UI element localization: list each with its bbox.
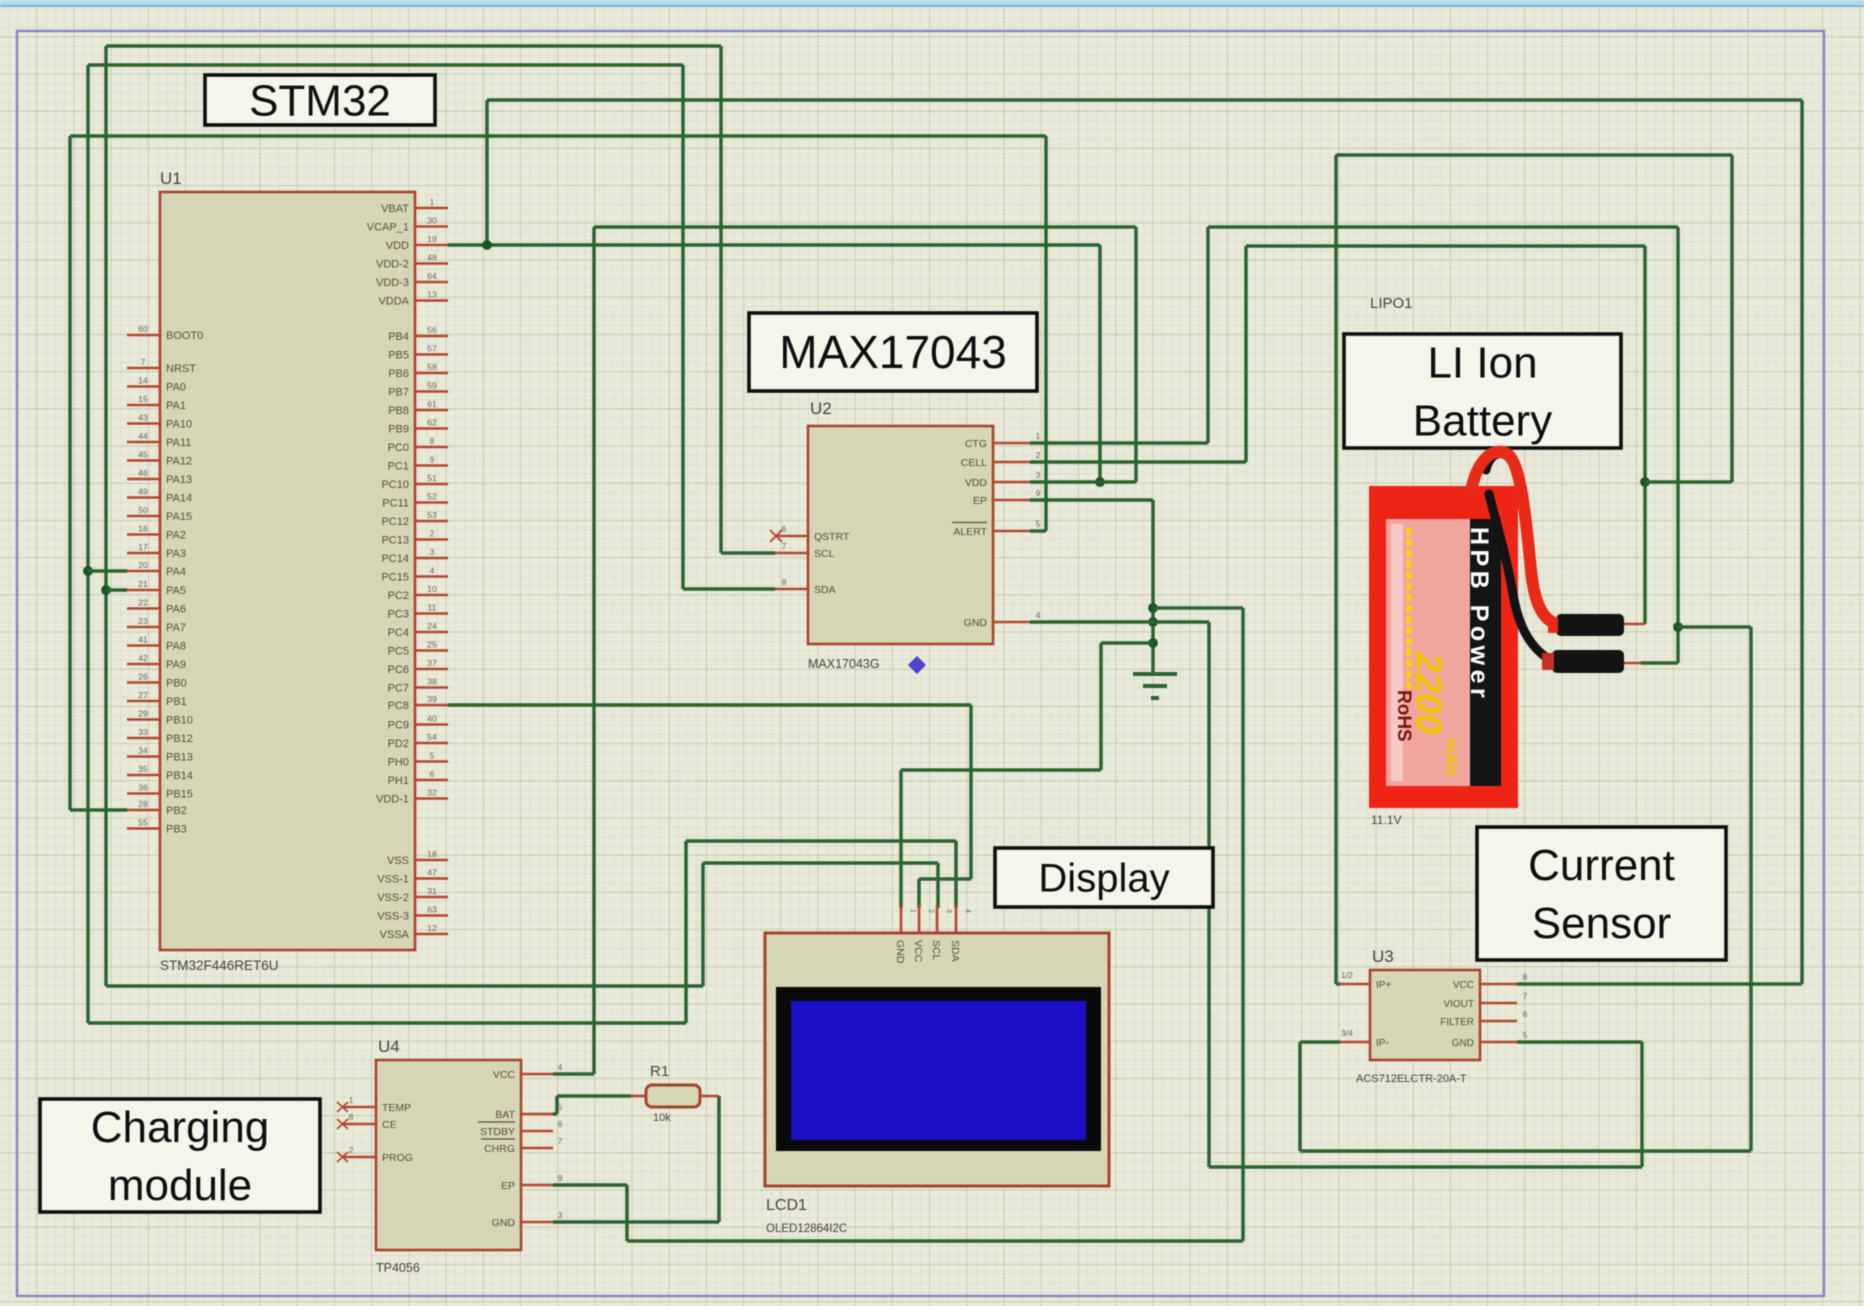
- svg-text:TEMP: TEMP: [382, 1102, 411, 1114]
- svg-text:7: 7: [141, 357, 146, 367]
- svg-text:VSS-1: VSS-1: [377, 874, 409, 886]
- svg-text:PA0: PA0: [166, 382, 186, 394]
- svg-text:VDD-1: VDD-1: [376, 794, 409, 806]
- wire U1 PC8 to LCD VCC: [448, 703, 971, 707]
- svg-text:8: 8: [349, 1112, 354, 1122]
- wire VCC-E horizontal (wire E): [594, 225, 1136, 229]
- fuel gauge U2 MAX17043: [808, 426, 993, 644]
- wire PB2 stub link: [70, 808, 127, 812]
- svg-text:1: 1: [909, 909, 916, 913]
- wire SCL into U2: [721, 551, 775, 555]
- svg-text:19: 19: [427, 234, 437, 244]
- wire IP- loop vertical left: [1298, 1042, 1302, 1151]
- wire battery+ to right loop: [1645, 480, 1732, 484]
- svg-text:32: 32: [427, 788, 437, 798]
- svg-text:45: 45: [138, 450, 148, 460]
- svg-text:61: 61: [427, 399, 437, 409]
- svg-text:PB8: PB8: [388, 405, 409, 417]
- svg-text:PA9: PA9: [166, 659, 186, 671]
- svg-text:39: 39: [427, 694, 437, 704]
- svg-text:LCD1: LCD1: [766, 1197, 807, 1214]
- wire CELL top horizontal: [1246, 244, 1645, 248]
- wire U4 EP drop: [625, 1185, 629, 1241]
- svg-text:PC4: PC4: [388, 627, 409, 639]
- svg-text:11.1V: 11.1V: [1371, 813, 1401, 827]
- wire battery- drop: [1676, 227, 1680, 663]
- label box Current Sensor: [1477, 827, 1726, 960]
- label box Display: [995, 848, 1213, 907]
- svg-text:1: 1: [349, 1095, 354, 1105]
- wire LCD-SDA down to LCD: [954, 841, 958, 908]
- wire IP- loop bottom: [1300, 1149, 1751, 1153]
- svg-text:IP+: IP+: [1376, 980, 1391, 991]
- svg-text:PB7: PB7: [388, 387, 409, 399]
- svg-text:34: 34: [138, 746, 148, 756]
- svg-text:15: 15: [138, 394, 148, 404]
- svg-text:PB6: PB6: [388, 368, 409, 380]
- svg-text:37: 37: [427, 658, 437, 668]
- svg-text:6: 6: [430, 769, 435, 779]
- svg-text:Display: Display: [1038, 857, 1169, 901]
- svg-text:7: 7: [1523, 991, 1528, 1001]
- svg-text:VSS: VSS: [387, 855, 409, 867]
- svg-text:SDA: SDA: [814, 584, 836, 596]
- battery + connector stub: [1624, 623, 1645, 626]
- wire right loop vertical: [1730, 155, 1734, 482]
- wire U1 VDD horizontal: [448, 243, 1100, 247]
- svg-text:PA14: PA14: [166, 493, 192, 505]
- wire ground to EP-U4 branch: [1153, 606, 1243, 610]
- wire EP-U4 branch bottom: [627, 1239, 1243, 1243]
- svg-text:PA12: PA12: [166, 456, 192, 468]
- wire LCD-GND branch vertical: [1099, 643, 1103, 770]
- wire PA4 bottom run: [88, 1021, 686, 1025]
- svg-text:64: 64: [427, 271, 437, 281]
- svg-text:47: 47: [427, 868, 437, 878]
- svg-text:4: 4: [1036, 610, 1041, 620]
- wire IP+ drop vertical: [1334, 155, 1338, 984]
- svg-text:2: 2: [430, 529, 435, 539]
- svg-text:PA2: PA2: [166, 530, 186, 542]
- battery - connector stub: [1624, 662, 1641, 665]
- svg-text:SCL: SCL: [930, 940, 942, 961]
- svg-text:U1: U1: [160, 169, 182, 188]
- svg-text:8: 8: [430, 436, 435, 446]
- svg-text:5: 5: [558, 1102, 563, 1112]
- svg-text:40: 40: [427, 714, 437, 724]
- svg-text:PC9: PC9: [388, 720, 409, 732]
- svg-text:LI Ion: LI Ion: [1427, 338, 1537, 387]
- svg-text:6: 6: [1523, 1009, 1528, 1019]
- U2 origin marker (blue diamond): [908, 656, 926, 674]
- svg-text:VBAT: VBAT: [381, 203, 409, 215]
- svg-text:44: 44: [138, 431, 148, 441]
- svg-text:PC12: PC12: [381, 516, 409, 528]
- svg-text:PC8: PC8: [388, 700, 409, 712]
- svg-text:SCL: SCL: [814, 548, 835, 560]
- svg-text:RoHS: RoHS: [1393, 690, 1414, 742]
- current sensor U3 ACS712ELCTR-20A-T: [1370, 970, 1480, 1060]
- svg-text:VDD: VDD: [386, 240, 409, 252]
- battery black lead top hook: [1486, 454, 1512, 470]
- svg-text:53: 53: [427, 510, 437, 520]
- label box LI Ion Battery: [1344, 334, 1621, 448]
- svg-text:22: 22: [138, 598, 148, 608]
- svg-text:GND: GND: [492, 1217, 516, 1229]
- svg-text:60: 60: [138, 324, 148, 334]
- svg-text:9: 9: [1036, 488, 1041, 498]
- wire GND bottom run: [1209, 1165, 1642, 1169]
- svg-text:OLED12864I2C: OLED12864I2C: [766, 1223, 847, 1235]
- svg-text:49: 49: [138, 487, 148, 497]
- wire R1 right drop: [717, 1096, 721, 1222]
- wire VDD riser from U1: [485, 100, 489, 245]
- wire battery- top horizontal: [1208, 225, 1678, 229]
- wire ALERT into U2: [1030, 529, 1046, 533]
- battery black lead wire: [1489, 494, 1552, 661]
- svg-text:module: module: [108, 1161, 252, 1210]
- svg-text:6: 6: [782, 524, 787, 534]
- wire U4 BAT link: [553, 1112, 557, 1116]
- label box MAX17043: [749, 313, 1037, 391]
- node battery+ junction: [1640, 477, 1650, 487]
- svg-text:21: 21: [138, 579, 148, 589]
- wire U2 EP row: [1030, 498, 1153, 502]
- wire VCC-E drop to U4: [592, 227, 596, 1074]
- svg-text:PC7: PC7: [388, 683, 409, 695]
- svg-text:MAX17043: MAX17043: [779, 326, 1007, 378]
- svg-text:23: 23: [138, 616, 148, 626]
- svg-text:PB3: PB3: [166, 824, 187, 836]
- svg-text:18: 18: [427, 849, 437, 859]
- svg-text:QSTRT: QSTRT: [814, 531, 850, 543]
- svg-text:PC1: PC1: [388, 461, 409, 473]
- svg-text:VCC: VCC: [1453, 980, 1474, 991]
- svg-text:7: 7: [558, 1136, 563, 1146]
- svg-text:PC10: PC10: [381, 479, 409, 491]
- svg-text:VSS-2: VSS-2: [377, 892, 409, 904]
- wire PB2 left vertical: [68, 136, 72, 810]
- svg-text:PB12: PB12: [166, 733, 193, 745]
- wire LCD-VCC vertical: [969, 705, 973, 879]
- svg-text:17: 17: [138, 542, 148, 552]
- svg-text:12: 12: [427, 923, 437, 933]
- svg-text:31: 31: [427, 886, 437, 896]
- node ground junction 2: [1148, 617, 1158, 627]
- svg-text:Charging: Charging: [91, 1103, 270, 1152]
- svg-text:PA5: PA5: [166, 585, 186, 597]
- wire PA4 net left vertical: [86, 65, 90, 1023]
- svg-text:3: 3: [1036, 470, 1041, 480]
- svg-text:VDDA: VDDA: [378, 296, 409, 308]
- wire U4 VCC link: [553, 1072, 594, 1076]
- svg-text:PC5: PC5: [388, 646, 409, 658]
- svg-text:EP: EP: [501, 1180, 515, 1192]
- svg-text:27: 27: [138, 690, 148, 700]
- svg-text:42: 42: [138, 653, 148, 663]
- svg-text:33: 33: [138, 727, 148, 737]
- svg-text:LIPO1: LIPO1: [1370, 295, 1413, 312]
- svg-text:PROG: PROG: [382, 1152, 413, 1164]
- svg-text:HPB Power: HPB Power: [1465, 527, 1493, 702]
- svg-text:2: 2: [927, 909, 934, 913]
- svg-text:PA8: PA8: [166, 641, 186, 653]
- battery - connector: [1552, 650, 1624, 673]
- svg-text:PA7: PA7: [166, 622, 186, 634]
- wire EP-U4 branch vertical: [1241, 608, 1245, 1241]
- wire right loop top: [1336, 153, 1732, 157]
- svg-text:VDD-2: VDD-2: [376, 259, 409, 271]
- svg-text:VIOUT: VIOUT: [1443, 999, 1474, 1010]
- svg-text:PB5: PB5: [388, 350, 409, 362]
- svg-text:35: 35: [138, 764, 148, 774]
- svg-text:51: 51: [427, 473, 437, 483]
- battery LIPO1 body (HPB Power 2200mAh): [1369, 486, 1518, 808]
- wire U4 BAT up jog: [555, 1096, 559, 1114]
- svg-text:4: 4: [430, 566, 435, 576]
- svg-text:62: 62: [427, 418, 437, 428]
- node U2 VDD junction: [1095, 477, 1105, 487]
- wire U2 VDD row: [1030, 480, 1136, 484]
- microcontroller U1 STM32F446RET6U: [160, 192, 415, 950]
- svg-text:PB13: PB13: [166, 752, 193, 764]
- svg-text:PB0: PB0: [166, 678, 187, 690]
- svg-text:8: 8: [1523, 972, 1528, 982]
- svg-text:25: 25: [427, 640, 437, 650]
- svg-text:PC3: PC3: [388, 609, 409, 621]
- wire LCD-VCC riser: [917, 879, 921, 908]
- svg-text:EP: EP: [973, 495, 987, 507]
- svg-text:VCAP_1: VCAP_1: [367, 222, 409, 234]
- svg-text:PC6: PC6: [388, 664, 409, 676]
- wire IP+ link: [1336, 982, 1340, 986]
- wire PA4 stub link: [88, 569, 127, 573]
- svg-text:6: 6: [558, 1119, 563, 1129]
- wire LCD-VCC horizontal: [919, 877, 971, 881]
- svg-text:3: 3: [945, 909, 952, 913]
- svg-text:GND: GND: [1452, 1038, 1474, 1049]
- wire PB2/ALERT run (wire C): [70, 134, 1046, 138]
- svg-text:3: 3: [430, 547, 435, 557]
- node ground junction 1: [1148, 603, 1158, 613]
- wire LCD-SDA horizontal: [686, 839, 956, 843]
- wire SCL drop vertical: [719, 46, 723, 553]
- node battery- junction: [1673, 622, 1683, 632]
- wire ALERT drop vertical: [1044, 136, 1048, 531]
- svg-text:57: 57: [427, 344, 437, 354]
- wire ground to LCD branch: [1101, 641, 1153, 645]
- svg-text:GND: GND: [894, 940, 906, 964]
- node PA4 junction: [83, 566, 93, 576]
- wire battery- to lower connector: [1641, 661, 1678, 665]
- svg-text:PA3: PA3: [166, 548, 186, 560]
- wire LCD-SCL riser vertical: [701, 863, 705, 986]
- svg-text:CHRG: CHRG: [484, 1143, 515, 1155]
- svg-text:10: 10: [427, 584, 437, 594]
- svg-text:Current: Current: [1528, 841, 1675, 890]
- wire U3 GND horizontal: [1517, 1040, 1642, 1044]
- wire PA4/SDA net top run (wire B): [88, 63, 683, 67]
- wire VCC-E vertical to U2 VDD: [1134, 227, 1138, 482]
- wire IP- link: [1300, 1040, 1340, 1044]
- wire LCD-SCL down to LCD: [936, 863, 940, 908]
- wire CELL riser: [1244, 246, 1248, 462]
- svg-text:PB14: PB14: [166, 770, 193, 782]
- wire SDA drop vertical: [681, 65, 685, 589]
- svg-text:1: 1: [430, 197, 435, 207]
- svg-text:48: 48: [427, 253, 437, 263]
- svg-text:9: 9: [430, 455, 435, 465]
- wire U3 VCC horizontal: [1517, 982, 1802, 986]
- svg-text:2: 2: [1036, 450, 1041, 460]
- node PA5 junction: [101, 585, 111, 595]
- svg-text:5: 5: [1523, 1030, 1528, 1040]
- wire U2 GND row: [1030, 620, 1209, 624]
- resistor R1 10k: [631, 1095, 646, 1098]
- svg-text:4: 4: [964, 909, 971, 913]
- wire LCD-SDA riser vertical: [684, 841, 688, 1023]
- wire U2 CTG row: [1030, 441, 1208, 445]
- svg-text:SDA: SDA: [949, 940, 961, 962]
- svg-text:56: 56: [427, 325, 437, 335]
- wire PA5 net left vertical: [104, 46, 108, 986]
- svg-text:1: 1: [1036, 431, 1041, 441]
- svg-text:Battery: Battery: [1413, 396, 1552, 445]
- svg-text:BAT: BAT: [495, 1109, 515, 1121]
- wire U2 CELL row: [1030, 460, 1246, 464]
- svg-text:3: 3: [558, 1210, 563, 1220]
- svg-text:PA1: PA1: [166, 400, 186, 412]
- svg-text:4: 4: [558, 1062, 563, 1072]
- svg-text:VSS-3: VSS-3: [377, 911, 409, 923]
- svg-text:46: 46: [138, 468, 148, 478]
- svg-text:PH0: PH0: [388, 757, 409, 769]
- svg-text:1/2: 1/2: [1341, 970, 1353, 980]
- svg-text:59: 59: [427, 381, 437, 391]
- svg-text:PB2: PB2: [166, 805, 187, 817]
- svg-text:9: 9: [558, 1173, 563, 1183]
- display module LCD1 OLED12864I2C: [765, 933, 1109, 1186]
- wire PA5/SCL net top run (wire A): [106, 44, 721, 48]
- svg-text:29: 29: [138, 709, 148, 719]
- ground: [1133, 674, 1177, 698]
- top window strip: [0, 0, 1864, 7]
- wire SDA into U2: [683, 587, 775, 591]
- svg-text:24: 24: [427, 621, 437, 631]
- svg-text:U3: U3: [1372, 947, 1394, 966]
- svg-text:PA11: PA11: [166, 437, 191, 449]
- svg-text:ALERT: ALERT: [953, 526, 987, 538]
- svg-text:5: 5: [1036, 519, 1041, 529]
- wire battery- to IP- loop: [1678, 625, 1751, 629]
- svg-text:VSSA: VSSA: [380, 929, 410, 941]
- svg-text:STM32: STM32: [249, 76, 391, 125]
- svg-text:PH1: PH1: [388, 775, 409, 787]
- svg-text:41: 41: [138, 635, 148, 645]
- svg-text:MAX17043G: MAX17043G: [808, 657, 880, 671]
- node ground junction 3: [1148, 638, 1158, 648]
- svg-text:PB1: PB1: [166, 696, 187, 708]
- svg-text:VDD: VDD: [965, 477, 988, 489]
- svg-text:VCC: VCC: [912, 940, 924, 963]
- label box Charging module: [40, 1099, 320, 1212]
- svg-text:28: 28: [138, 799, 148, 809]
- svg-text:50: 50: [138, 505, 148, 515]
- svg-text:PC14: PC14: [381, 553, 409, 565]
- svg-text:TP4056: TP4056: [376, 1261, 420, 1275]
- svg-text:ACS712ELCTR-20A-T: ACS712ELCTR-20A-T: [1356, 1073, 1467, 1085]
- wire VDD far right drop: [1800, 100, 1804, 984]
- svg-text:43: 43: [138, 413, 148, 423]
- svg-text:30: 30: [427, 216, 437, 226]
- battery + connector: [1556, 614, 1624, 636]
- svg-text:PB4: PB4: [388, 331, 409, 343]
- svg-text:11: 11: [428, 603, 437, 613]
- svg-text:20: 20: [138, 560, 148, 570]
- svg-text:PB15: PB15: [166, 789, 193, 801]
- wire VDD top run (wire D): [487, 98, 1802, 102]
- wire GND drop right: [1207, 622, 1211, 1167]
- svg-text:10k: 10k: [653, 1112, 671, 1124]
- wire BAT to R1: [557, 1094, 631, 1098]
- svg-text:NRST: NRST: [166, 363, 196, 375]
- charger U4 TP4056: [376, 1060, 521, 1250]
- svg-text:PA4: PA4: [166, 566, 186, 578]
- wire LCD-SCL horizontal: [703, 861, 938, 865]
- svg-text:PC0: PC0: [388, 442, 409, 454]
- svg-text:VCC: VCC: [493, 1069, 516, 1081]
- svg-text:PD2: PD2: [388, 738, 409, 750]
- svg-text:BOOT0: BOOT0: [166, 330, 203, 342]
- wire PA5 stub link: [106, 588, 127, 592]
- svg-text:7: 7: [782, 541, 787, 551]
- wire U4 GND row: [553, 1220, 719, 1224]
- svg-text:PA10: PA10: [166, 419, 192, 431]
- svg-text:STM32F446RET6U: STM32F446RET6U: [160, 958, 279, 973]
- svg-text:26: 26: [138, 672, 148, 682]
- svg-text:STDBY: STDBY: [480, 1126, 515, 1138]
- svg-text:IP-: IP-: [1376, 1038, 1389, 1049]
- svg-text:16: 16: [138, 524, 148, 534]
- svg-text:38: 38: [427, 677, 437, 687]
- wire LCD-GND horizontal: [901, 768, 1101, 772]
- svg-text:CE: CE: [382, 1119, 397, 1131]
- wire PA5 bottom run: [106, 984, 703, 988]
- svg-text:52: 52: [427, 492, 437, 502]
- svg-text:PB10: PB10: [166, 715, 193, 727]
- svg-text:FILTER: FILTER: [1440, 1017, 1474, 1028]
- battery red lead wire: [1471, 452, 1557, 624]
- svg-text:U4: U4: [378, 1037, 400, 1056]
- svg-text:VDD-3: VDD-3: [376, 277, 409, 289]
- svg-text:14: 14: [138, 376, 148, 386]
- svg-text:CELL: CELL: [961, 457, 987, 469]
- svg-text:mAh: mAh: [1442, 738, 1461, 776]
- svg-text:63: 63: [427, 905, 437, 915]
- svg-text:PC15: PC15: [381, 572, 409, 584]
- svg-text:PA13: PA13: [166, 474, 192, 486]
- svg-text:2: 2: [349, 1145, 354, 1155]
- wire U3 GND riser: [1640, 1042, 1644, 1167]
- svg-text:5: 5: [430, 751, 435, 761]
- wire IP- loop vertical right: [1749, 627, 1753, 1151]
- wire U4 EP link: [553, 1183, 627, 1187]
- svg-text:PC13: PC13: [381, 535, 409, 547]
- svg-text:8: 8: [782, 577, 787, 587]
- wire VDD drop to U2: [1098, 245, 1102, 482]
- node VDD junction at U1: [482, 240, 492, 250]
- svg-text:GND: GND: [964, 617, 988, 629]
